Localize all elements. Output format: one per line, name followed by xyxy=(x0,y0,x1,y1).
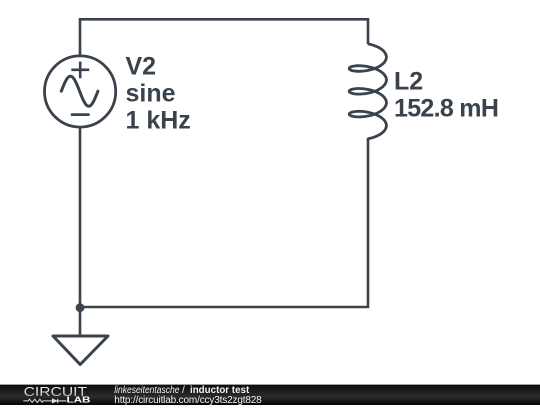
V2 plus sign xyxy=(71,62,89,79)
inductor L2 coil xyxy=(349,44,386,139)
svg-text:LAB: LAB xyxy=(67,396,91,405)
svg-text:V2: V2 xyxy=(126,52,157,80)
V2 minus sign xyxy=(71,113,90,116)
wire top: source top to inductor top xyxy=(80,19,368,56)
logo resistor zigzag + diode xyxy=(23,399,52,402)
V2 sine symbol xyxy=(61,76,98,106)
svg-text:sine: sine xyxy=(126,80,176,108)
voltage source V2 circle xyxy=(45,56,116,127)
svg-text:http://circuitlab.com/ccy3ts2z: http://circuitlab.com/ccy3ts2zgt828 xyxy=(114,395,262,405)
wire left: source bottom to junction xyxy=(79,127,82,307)
junction node xyxy=(76,303,85,312)
svg-text:1 kHz: 1 kHz xyxy=(126,107,191,135)
wire bottom-right: inductor bottom to bottom-left junction xyxy=(80,138,368,307)
ground xyxy=(53,336,108,365)
svg-text:L2: L2 xyxy=(394,68,423,96)
footer bar xyxy=(0,385,540,405)
wire ground stem xyxy=(79,307,82,336)
svg-text:152.8 mH: 152.8 mH xyxy=(394,95,498,123)
